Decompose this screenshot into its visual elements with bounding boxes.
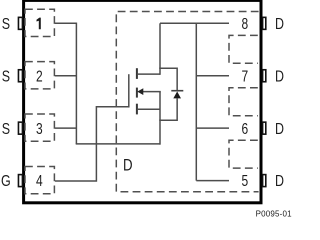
svg-text:P0095-01: P0095-01 — [256, 210, 292, 219]
diode anode vertical to source — [159, 98, 177, 120]
wire pin1 to source bus — [55, 22, 76, 24]
pin 4 lead bracket — [18, 175, 22, 187]
svg-text:4: 4 — [36, 172, 43, 190]
svg-text:D: D — [275, 120, 284, 138]
drain stub — [138, 73, 160, 75]
diode anode triangle — [173, 92, 181, 99]
pin 7 lead bracket — [263, 70, 266, 82]
svg-text:G: G — [1, 172, 11, 190]
drain vertical upper — [159, 23, 161, 75]
wire pin3 to source bus — [55, 127, 76, 129]
drain pad dashed box (net D) — [116, 12, 258, 192]
source bus vertical — [75, 23, 77, 144]
svg-text:S: S — [2, 120, 10, 138]
source horizontal wire — [76, 143, 161, 145]
wire pin5 — [196, 180, 229, 182]
pin 5 lead bracket — [263, 175, 266, 187]
svg-text:D: D — [275, 172, 284, 190]
source stub — [138, 108, 160, 110]
channel segment source — [136, 104, 138, 115]
pin 8 lead bracket — [263, 17, 266, 29]
wire pin2 to source bus — [55, 75, 76, 77]
svg-text:D: D — [275, 15, 284, 33]
drain bus vertical — [195, 23, 197, 181]
svg-text:8: 8 — [241, 15, 248, 33]
pin 2 dashed box — [25, 62, 54, 89]
pin 2 lead bracket — [18, 70, 22, 82]
pin number 1 — [37, 18, 41, 30]
svg-text:S: S — [2, 67, 10, 85]
wire pin4 to gate — [55, 107, 129, 181]
diode cathode bar — [171, 90, 183, 92]
svg-text:6: 6 — [241, 119, 248, 137]
svg-text:7: 7 — [241, 67, 248, 85]
body arrow wire — [143, 91, 161, 93]
channel segment body — [136, 88, 138, 98]
svg-text:5: 5 — [241, 172, 248, 190]
wire pin7 — [196, 75, 229, 77]
svg-text:D: D — [275, 67, 284, 85]
wire pin8 — [160, 22, 229, 24]
pin 3 lead bracket — [18, 122, 22, 134]
gate vertical — [128, 74, 130, 107]
right dashed box between pins 6-5 — [229, 140, 258, 168]
pin 1 lead bracket — [18, 17, 22, 29]
svg-text:3: 3 — [36, 119, 43, 137]
pin 6 lead bracket — [263, 122, 266, 134]
source net right vertical — [159, 92, 161, 145]
wire pin6 — [196, 127, 229, 129]
channel segment drain — [136, 68, 138, 79]
package outline — [24, 0, 261, 202]
body arrowhead — [137, 88, 143, 95]
pin 4 dashed box — [25, 167, 54, 194]
right dashed box between pins 7-6 — [229, 88, 258, 116]
pin 1 dashed box — [25, 9, 54, 36]
svg-text:D: D — [123, 156, 133, 175]
svg-text:S: S — [2, 15, 10, 33]
pin 3 dashed box — [25, 114, 54, 141]
drain branch to diode — [159, 68, 177, 90]
svg-text:2: 2 — [36, 67, 43, 85]
right dashed box between pins 8-7 — [229, 35, 258, 63]
